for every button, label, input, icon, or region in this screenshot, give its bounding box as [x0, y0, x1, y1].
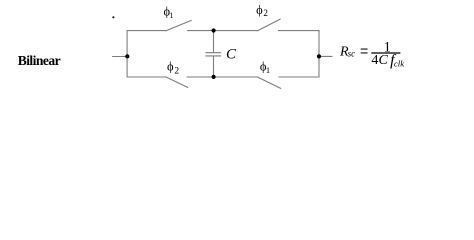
wire output stub [319, 55, 332, 57]
svg-text:clk: clk [394, 58, 405, 68]
equation Rsc = 1/(4Cf_clk) [339, 40, 405, 69]
wire top rail segment 2 [188, 30, 258, 32]
wire input [113, 56, 128, 58]
node input junction [125, 54, 129, 58]
svg-text:C: C [226, 47, 237, 63]
stray dot [112, 16, 114, 18]
node capacitor bottom junction [212, 75, 216, 79]
svg-text:4C: 4C [371, 52, 388, 68]
svg-text:Bilinear: Bilinear [18, 53, 61, 68]
svg-text:ϕ: ϕ [256, 3, 263, 17]
switch S1 blade (phi1 top) [166, 20, 191, 30]
switch S3 blade (phi2 bottom) [167, 77, 188, 87]
wire right vertical [318, 31, 320, 77]
wire top rail segment 1 [127, 30, 166, 32]
switch S4 blade (phi1 bottom) [258, 77, 281, 88]
svg-text:ϕ: ϕ [167, 59, 174, 73]
capacitor C1 top plate [206, 52, 221, 54]
capacitor C1 bottom plate [206, 55, 221, 57]
svg-text:1: 1 [170, 11, 174, 20]
wire bottom rail segment 3 [279, 76, 319, 78]
wire top rail segment 3 [278, 30, 319, 32]
svg-text:2: 2 [263, 8, 268, 18]
wire left vertical [126, 31, 128, 77]
capacitor C1 top lead [213, 31, 215, 53]
wire bottom rail segment 2 [187, 76, 258, 78]
switch S2 blade (phi2 top) [258, 19, 281, 31]
node output junction [317, 54, 321, 58]
svg-text:sc: sc [348, 49, 356, 59]
eq fraction bar [371, 52, 400, 54]
wire bottom rail segment 1 [127, 76, 166, 78]
capacitor C1 bottom lead [213, 56, 215, 77]
eq equals [361, 49, 368, 53]
svg-text:2: 2 [174, 67, 179, 77]
svg-text:1: 1 [266, 65, 270, 75]
node capacitor top junction [212, 28, 216, 32]
